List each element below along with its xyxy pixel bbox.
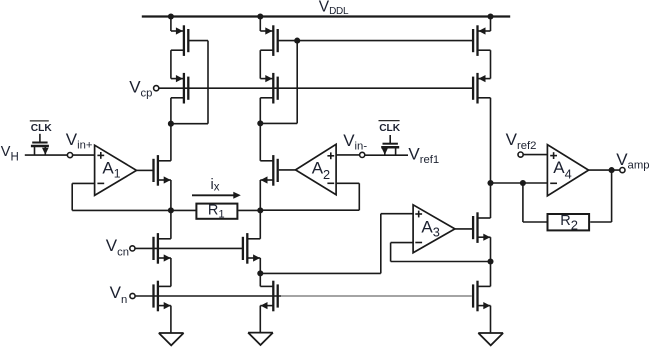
wire A3 minus to branch3 node — [391, 261, 491, 263]
wire mid node to A3 plus (horiz) — [260, 272, 381, 274]
wire M1 source from rail — [170, 17, 172, 32]
wire M13 drain up — [490, 183, 492, 218]
node rail-branch2 — [257, 13, 263, 19]
node R1 left — [168, 207, 174, 213]
svg-text:CLK: CLK — [379, 123, 401, 134]
wire mid node to M12 drain — [259, 273, 261, 286]
transistor M4 (PMOS cascode, branch2) — [260, 73, 277, 104]
transistor M1 (PMOS, branch1 top) — [171, 25, 188, 56]
transistor M6 (PMOS cascode, branch3) — [473, 73, 490, 104]
svg-text:Vin+: Vin+ — [66, 130, 93, 152]
wire M10 source to mid node — [259, 258, 261, 273]
wire A2 output to M8 gate — [279, 169, 296, 171]
wire M12 source to ground — [259, 306, 261, 333]
svg-text:Vcp: Vcp — [129, 77, 152, 99]
label R1 — [208, 203, 225, 221]
wire branch2 node to M10 drain — [259, 210, 261, 238]
label A1 — [102, 158, 120, 180]
svg-text:A3: A3 — [421, 218, 439, 240]
wire diode line branch1 vertical — [207, 41, 209, 124]
svg-text:A2: A2 — [312, 159, 330, 182]
node rail-branch1 — [168, 13, 174, 19]
wire M5 drain to M6 source — [490, 50, 492, 78]
svg-text:Vamp: Vamp — [616, 150, 649, 172]
svg-text:VH: VH — [1, 144, 19, 164]
node branch3 mid — [487, 258, 493, 264]
transistor M9 (NMOS cascode, branch1) — [154, 233, 171, 264]
label CLK-bar right — [379, 123, 401, 134]
wire V_H to switch — [25, 154, 68, 156]
node branch2 cascode-drain — [257, 120, 263, 126]
resistor R2 — [548, 214, 590, 230]
label CLK-bar right overline — [379, 120, 400, 122]
svg-text:Vref1: Vref1 — [408, 145, 439, 167]
wire M3 source from rail — [259, 17, 261, 32]
wire R1 right lead — [238, 209, 260, 211]
transistor M3 (PMOS, branch2 top) — [260, 25, 277, 56]
wire A3 minus vert — [390, 243, 392, 262]
wire R1 left lead — [171, 209, 196, 211]
wire V_in+ to A1 — [73, 154, 95, 156]
wire R2 left riser — [522, 183, 524, 222]
wire M14 source to ground — [490, 306, 492, 333]
transistor M5 (PMOS, branch3 top) — [473, 25, 490, 56]
wire A1 feedback horiz — [72, 182, 94, 184]
svg-text:Vn: Vn — [110, 283, 128, 306]
net label V_cn — [106, 236, 129, 259]
wire M1 drain to M2 source — [170, 50, 172, 78]
wire A3 plus riser — [380, 214, 382, 274]
node branch2 mid — [257, 270, 263, 276]
wire R2 right riser — [611, 170, 613, 222]
terminal V_cn — [130, 246, 135, 251]
transistor M11 (NMOS, branch1 bottom) — [154, 281, 171, 312]
wire branch2 column upper — [259, 98, 261, 161]
wire diode line branch2 bottom — [260, 122, 297, 124]
port V_amp — [616, 150, 649, 172]
net label V_in+ — [66, 130, 93, 152]
net label V_n — [110, 283, 128, 306]
wire V_in- to switch and Vref1 — [365, 154, 408, 156]
wire R2 right lead — [590, 221, 611, 223]
svg-text:Vref2: Vref2 — [506, 130, 537, 152]
label A4 — [553, 158, 571, 182]
wire M3 drain to M4 source — [259, 50, 261, 78]
wire A3 plus input — [381, 213, 413, 215]
transistor M7 (NMOS, branch1 driver) — [154, 155, 171, 186]
wire A1 feedback bottom — [72, 209, 171, 211]
wire M13 source to node — [490, 237, 492, 261]
wire M3 gate to mirror line — [278, 40, 298, 42]
node branch3 to A4 — [487, 180, 493, 186]
transistor M10 (NMOS cascode, branch2) — [243, 233, 260, 264]
transistor M8 (NMOS, branch2 driver) — [260, 155, 277, 186]
wire VDDL rail — [142, 15, 510, 17]
wire A3 minus horiz — [391, 242, 414, 244]
svg-text:Vcn: Vcn — [106, 236, 129, 259]
terminal V_in- — [360, 152, 365, 157]
wire branch1 node to M9 drain — [170, 210, 172, 238]
svg-text:CLK: CLK — [31, 123, 53, 134]
wire diode line branch1 bottom — [171, 123, 208, 125]
wire branch3 column upper — [490, 98, 492, 183]
transistor M12 (NMOS, branch2 bottom, mirrored) — [260, 281, 277, 312]
wire A1 output to M7 gate — [137, 169, 153, 171]
svg-text:Vin-: Vin- — [343, 131, 367, 153]
op-amp A3 — [413, 205, 455, 253]
wire A2 feedback bottom — [260, 209, 359, 211]
node rail-branch3 — [487, 13, 493, 19]
label R2 — [560, 213, 578, 232]
wire M9 source to M11 drain — [170, 258, 172, 286]
transistor M14 (NMOS, branch3 bottom) — [473, 281, 490, 312]
wire V_ref2 to A4 plus — [523, 154, 547, 156]
wire branch3 node to A4 minus — [491, 182, 548, 184]
resistor R1 — [196, 204, 237, 219]
terminal V_n — [130, 293, 135, 298]
wire A2 feedback horiz — [336, 182, 359, 184]
node R1 right — [257, 207, 263, 213]
wire M1 gate to diode line — [188, 40, 208, 42]
wire V_n bias line — [135, 295, 281, 297]
port V_H — [1, 144, 19, 164]
terminal V_in+ — [67, 153, 72, 158]
wire V_n bias line to branch3 (gray) — [281, 295, 472, 297]
svg-text:A4: A4 — [553, 158, 571, 182]
net label V_in- — [343, 131, 367, 153]
ground branch1 — [159, 333, 184, 345]
svg-text:ix: ix — [211, 177, 220, 194]
ground branch3 — [478, 333, 503, 345]
wire M11 source to ground — [170, 306, 172, 334]
svg-text:VDDL: VDDL — [319, 0, 349, 17]
wire R2 left lead — [523, 221, 548, 223]
wire mirror gate line to branch3 — [297, 40, 472, 42]
op-amp A4 — [547, 145, 588, 196]
wire A2 plus-input — [336, 154, 360, 156]
op-amp A1 — [95, 145, 137, 195]
label A2 — [312, 159, 330, 182]
transistor M13 (NMOS, branch3 driver) — [473, 212, 490, 243]
net label V_DDL — [319, 0, 349, 17]
current label i_x — [211, 177, 220, 194]
switch S2 (NMOS, CLKbar) — [381, 135, 399, 155]
switch S1 (NMOS, CLKbar) — [31, 134, 49, 155]
terminal V_cp — [154, 86, 159, 91]
wire branch3 node to M14 drain — [490, 262, 492, 287]
current arrow i_x — [192, 192, 241, 199]
node mirror-gate tee — [294, 38, 300, 44]
label CLK-bar left — [31, 123, 53, 134]
wire A2 feedback vert — [358, 183, 360, 210]
svg-text:A1: A1 — [102, 158, 120, 180]
label A3 — [421, 218, 439, 240]
label CLK-bar left overline — [30, 120, 49, 122]
node A4 minus tee — [520, 180, 526, 186]
terminal V_amp — [620, 168, 625, 173]
net label V_cp — [129, 77, 152, 99]
net label V_ref2 — [506, 130, 537, 152]
port V_ref1 — [408, 145, 439, 167]
op-amp A2 — [296, 144, 337, 194]
wire A4 output — [589, 169, 620, 171]
wire M8 source to node — [259, 180, 261, 210]
wire diode line branch2 vertical — [296, 41, 298, 124]
wire V_cn bias line — [135, 247, 243, 249]
node A4 output tee — [609, 167, 615, 173]
wire A3 output to M13 gate — [455, 228, 473, 230]
wire M7 source to node — [170, 180, 172, 210]
ground branch2 — [248, 333, 273, 345]
transistor M2 (PMOS cascode, branch1) — [171, 73, 188, 104]
wire V_cp bias line — [159, 87, 473, 89]
terminal V_ref2 — [518, 152, 523, 157]
wire M5 source from rail — [490, 17, 492, 32]
node branch1 cascode-drain — [168, 121, 174, 127]
wire A1 feedback vert — [71, 183, 73, 210]
wire branch1 column upper — [170, 98, 172, 161]
